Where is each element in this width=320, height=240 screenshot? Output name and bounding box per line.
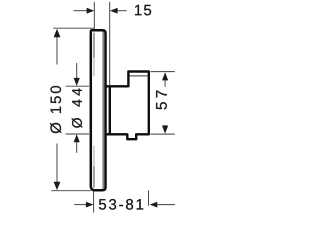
plate inner front-face line (left) — [93, 33, 95, 188]
dim D150: value text — [50, 86, 61, 133]
valve body outline — [106, 72, 149, 140]
dim 15: left leader — [74, 10, 88, 12]
dim 57: dimension line upper tail — [164, 80, 166, 87]
escutcheon plate (side view, outer outline) — [91, 30, 106, 190]
dim 15: extension line right — [109, 2, 111, 85]
dim 53-81: right leader — [157, 204, 175, 206]
valve body cap parting line — [130, 75, 148, 77]
dim 57: down arrow — [162, 126, 168, 134]
dim D150: dimension line upper segment — [56, 32, 58, 65]
dim 15: right arrow — [110, 8, 118, 14]
dim D44: value text — [72, 88, 82, 127]
dim 53-81: left extension line — [93, 191, 95, 213]
dim D44: top extension line — [66, 85, 90, 87]
dim 57: value text — [156, 91, 167, 110]
valve body front face line — [109, 86, 111, 134]
dim D150: dimension line lower segment — [56, 144, 58, 188]
dim 53-81: left-pointing arrow — [150, 202, 158, 208]
dim D44: bottom extension line — [66, 133, 90, 135]
dim D44: up arrow — [74, 134, 80, 142]
dim 53-81: left leader — [74, 204, 86, 206]
dim 15: value text — [135, 5, 151, 15]
dim 15: left arrow — [87, 8, 95, 14]
dim 57: dimension line lower tail — [164, 125, 166, 127]
dim 57: up arrow — [162, 72, 168, 80]
dim D150: top extension line — [53, 27, 94, 29]
dim 15: extension line left — [93, 2, 95, 29]
dim 57: top extension line — [151, 71, 175, 73]
dim D44: dimension line lower tail — [76, 141, 78, 153]
plate inner back line (right) — [102, 32, 104, 189]
dim 53-81: right extension line — [148, 191, 150, 206]
dim 57: bottom extension line — [151, 133, 175, 135]
dim D150: down arrow — [54, 182, 61, 190]
dim D44: down arrow — [74, 78, 80, 86]
dim D44: dimension line upper tail — [76, 63, 78, 79]
dim 15: right leader — [117, 10, 126, 12]
dim D150: bottom extension line — [52, 190, 92, 192]
dim 53-81: value text — [99, 199, 143, 210]
dim 53-81: right-pointing arrow — [86, 202, 94, 208]
dim D150: up arrow — [54, 29, 61, 37]
